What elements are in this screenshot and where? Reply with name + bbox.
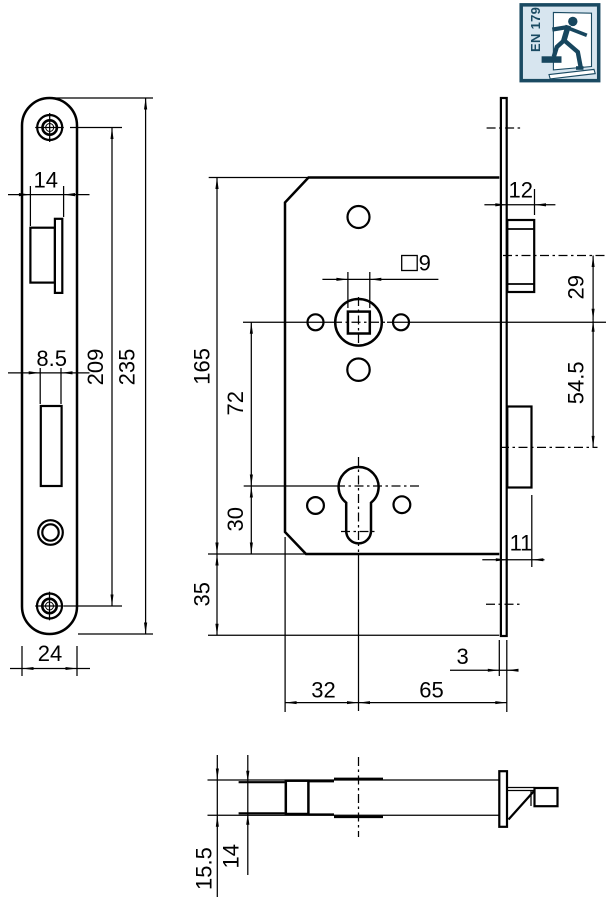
euro profile cylinder hole (339, 467, 379, 543)
centre line cylinder vertical (358, 457, 360, 552)
latch cutout front view (30, 219, 62, 293)
centre line spindle horizontal (243, 321, 606, 323)
dimension 54.5 spindle to deadbolt (564, 320, 595, 447)
svg-text:165: 165 (190, 348, 215, 385)
svg-text:24: 24 (38, 641, 62, 666)
dimension 209 screw centres (64, 128, 122, 607)
handle fixing hole left (308, 314, 324, 330)
svg-text:14: 14 (219, 844, 244, 868)
deadbolt cutout front view (41, 406, 62, 486)
svg-text:72: 72 (223, 391, 248, 415)
dimension 235 faceplate length (50, 98, 153, 634)
bottom view follower boss (286, 781, 309, 814)
svg-text:EN 179: EN 179 (528, 7, 543, 52)
dimension 32 case edge to cylinder axis (285, 537, 507, 712)
latch bolt side view (507, 220, 534, 292)
dimension 35 case bottom to faceplate end (190, 554, 500, 635)
svg-text:15.5: 15.5 (192, 847, 217, 890)
latch centre line (503, 255, 606, 257)
hole below spindle (347, 359, 369, 381)
faceplate front view outline (22, 98, 77, 634)
dimension 30 cylinder to case bottom (223, 486, 253, 554)
centre mark top screw side view (487, 127, 522, 129)
svg-text:235: 235 (115, 349, 140, 386)
faceplate side view (501, 98, 507, 636)
centre line spindle vertical (358, 297, 360, 346)
svg-text:9: 9 (419, 250, 431, 275)
follower hole front view (38, 520, 63, 545)
centre line cylinder horizontal (244, 485, 422, 487)
EN 179 logo text (528, 7, 543, 52)
bottom view cylinder axis (358, 757, 360, 837)
cylinder fixing hole right (394, 496, 411, 513)
handle fixing hole right (393, 314, 409, 330)
top hole (348, 206, 370, 228)
svg-text:8.5: 8.5 (36, 346, 67, 371)
dimension 14 latch width (8, 168, 90, 227)
svg-text:14: 14 (34, 168, 58, 193)
svg-text:12: 12 (509, 178, 533, 203)
dimension 15.5 overall thickness (192, 755, 219, 897)
svg-text:209: 209 (83, 349, 108, 386)
svg-text:65: 65 (419, 678, 443, 703)
centre mark bottom screw side view (486, 603, 522, 605)
svg-text:3: 3 (456, 644, 468, 669)
svg-text:54.5: 54.5 (564, 361, 589, 404)
dimension 11 deadbolt projection (482, 495, 544, 567)
bottom view case body lines (239, 782, 285, 813)
dimension 8.5 deadbolt cutout width (8, 346, 90, 404)
EN 179 floor slab (549, 69, 595, 79)
screw hole top (35, 113, 64, 142)
lock case outline (285, 178, 499, 555)
EN 179 running man (542, 17, 587, 70)
screw hole bottom (35, 592, 64, 621)
dimension 65 backset (359, 640, 507, 712)
dimension 24 faceplate width (10, 641, 90, 676)
spindle follower hole with square 9 (335, 299, 382, 346)
dimension 14 case thickness (219, 755, 250, 875)
cylinder fixing hole left (307, 497, 324, 514)
cylinder bottom arc centre line (341, 531, 377, 533)
svg-text:11: 11 (510, 531, 533, 556)
svg-text:35: 35 (190, 582, 215, 606)
svg-text:30: 30 (223, 507, 248, 531)
EN 179 door frame (553, 12, 591, 70)
dimension 72 spindle to cylinder (223, 322, 253, 486)
dimension 3 faceplate thickness (450, 640, 519, 676)
bottom view latch bolt with bevel (507, 788, 558, 820)
bottom view outer lines (208, 780, 500, 815)
bottom view faceplate (499, 771, 507, 827)
bottom view cover plate lines (308, 781, 334, 814)
svg-text:32: 32 (311, 678, 335, 703)
dimension 9 spindle square (322, 250, 438, 308)
dimension 12 latch projection (484, 178, 555, 216)
dimension 165 case height (190, 178, 309, 555)
svg-text:29: 29 (564, 275, 589, 299)
deadbolt centre line side view (500, 446, 598, 448)
dimension 29 latch to spindle (564, 256, 595, 321)
deadbolt side view (507, 407, 531, 488)
bottom view cylinder bulge (334, 779, 383, 817)
EN 179 logo square (521, 5, 599, 81)
